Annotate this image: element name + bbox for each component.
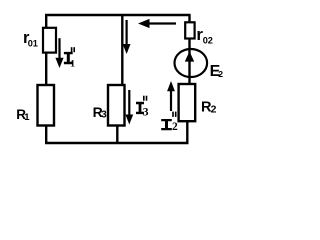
svg-text:1: 1: [70, 59, 75, 69]
resistor r01: [43, 28, 56, 53]
wire middle vertical: [121, 15, 123, 85]
svg-text:01: 01: [28, 38, 38, 48]
label I3 primes: [143, 96, 145, 101]
source E2 circle: [175, 49, 208, 77]
current arrow I2 (up): [170, 91, 172, 111]
current arrow I1: [58, 38, 60, 59]
svg-text:2: 2: [218, 69, 223, 79]
wire R2 to bottom: [186, 121, 188, 144]
wire bottom horizontal: [45, 142, 189, 145]
current arrow I3: [128, 90, 130, 115]
svg-text:2: 2: [211, 104, 217, 115]
source arrow (up): [185, 51, 194, 61]
svg-text:2: 2: [172, 121, 178, 133]
label I3 I-beam: [136, 102, 144, 114]
resistor R2: [179, 84, 196, 121]
resistor R1: [38, 85, 55, 126]
svg-text:3: 3: [143, 107, 149, 119]
current arrow top (left): [149, 22, 176, 24]
wire right vertical top: [188, 14, 190, 23]
wire left vertical top: [45, 14, 47, 28]
wire R3 to bottom: [116, 126, 118, 145]
label I2 I-beam: [161, 119, 172, 130]
label I1 I-beam: [64, 52, 73, 64]
svg-text:1: 1: [24, 112, 30, 123]
wire top horizontal: [45, 14, 191, 16]
svg-text:3: 3: [101, 110, 107, 121]
resistor r02: [185, 22, 194, 38]
wire r01 to R1: [45, 53, 47, 86]
wire R1 to bottom: [45, 126, 47, 145]
resistor R3: [108, 85, 125, 126]
label I2 primes: [172, 112, 174, 117]
wire through source: [188, 39, 190, 85]
label I1 primes: [71, 47, 73, 52]
current arrow middle top (down): [125, 20, 127, 45]
svg-text:02: 02: [203, 35, 213, 45]
